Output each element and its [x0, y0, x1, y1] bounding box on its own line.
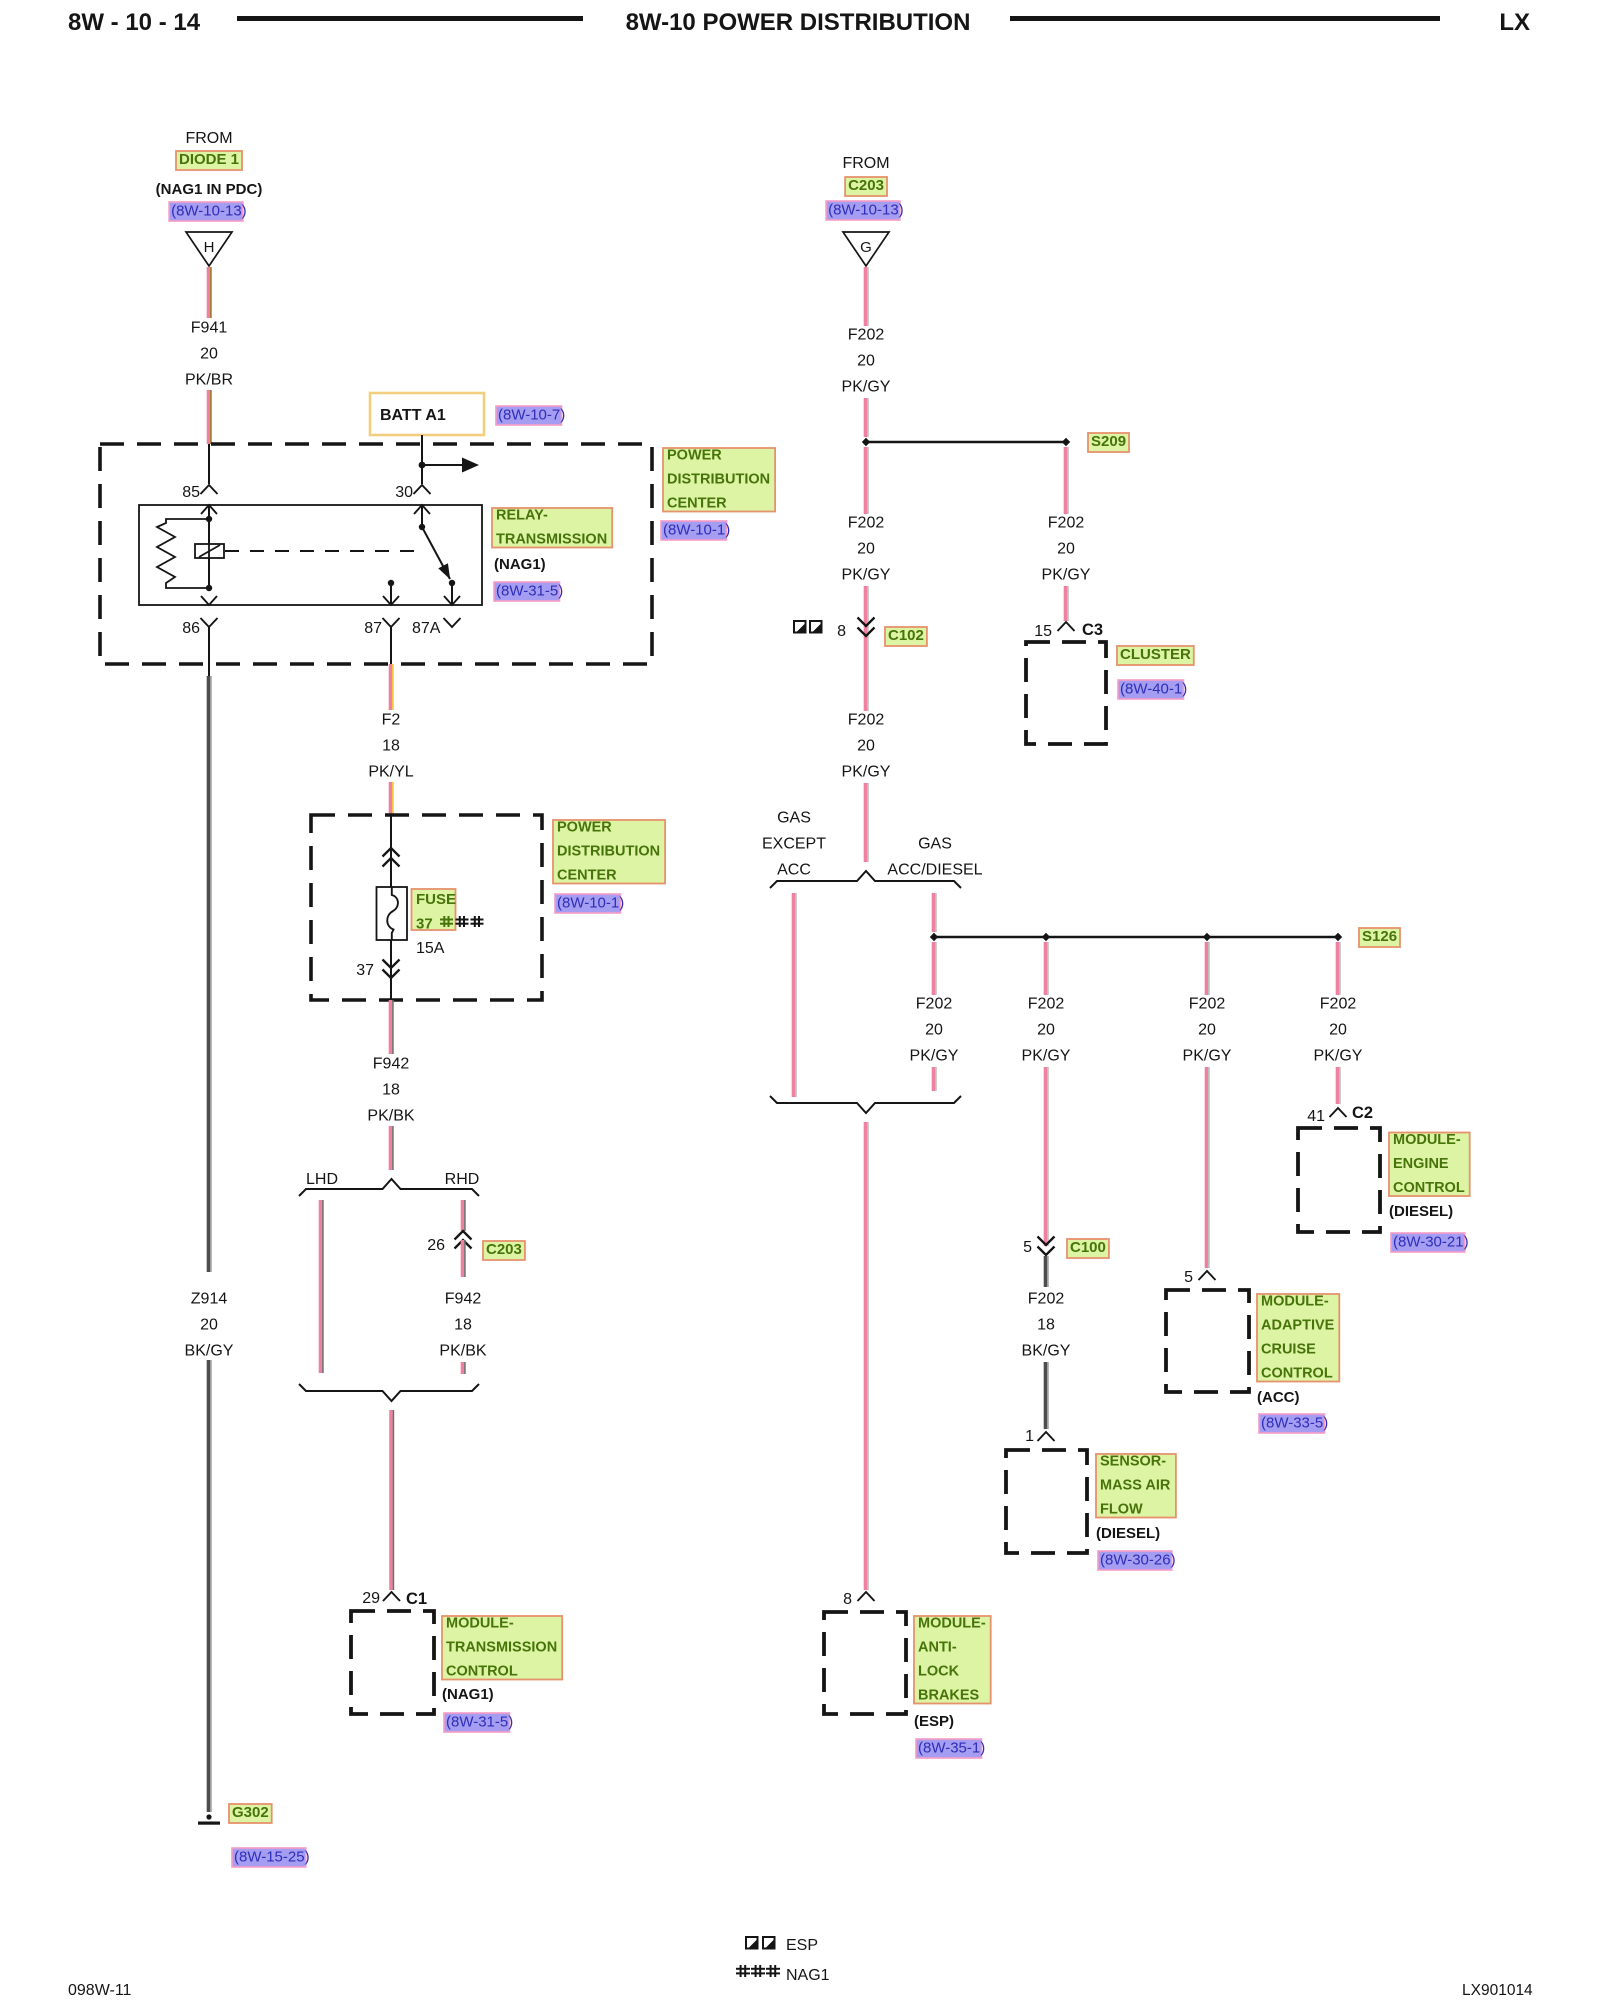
- svg-text:F942: F942: [445, 1291, 482, 1308]
- svg-text:RHD: RHD: [445, 1171, 480, 1188]
- svg-text:F941: F941: [191, 320, 228, 337]
- svg-text:EXCEPT: EXCEPT: [762, 836, 826, 853]
- svg-text:15A: 15A: [416, 940, 445, 957]
- svg-text:FROM: FROM: [842, 155, 889, 172]
- svg-text:LOCK: LOCK: [918, 1664, 960, 1680]
- svg-text:29: 29: [362, 1590, 380, 1607]
- svg-text:37: 37: [416, 916, 433, 933]
- svg-text:GAS: GAS: [918, 836, 952, 853]
- svg-text:8W-10 POWER DISTRIBUTION: 8W-10 POWER DISTRIBUTION: [626, 9, 971, 36]
- svg-text:ENGINE: ENGINE: [1393, 1156, 1449, 1172]
- svg-text:20: 20: [925, 1022, 943, 1039]
- svg-text:PK/BK: PK/BK: [439, 1343, 486, 1360]
- svg-text:NAG1: NAG1: [786, 1967, 830, 1984]
- svg-text:8: 8: [837, 623, 846, 640]
- svg-text:8W - 10 - 14: 8W - 10 - 14: [68, 9, 201, 36]
- svg-text:BATT A1: BATT A1: [380, 407, 446, 424]
- svg-text:S209: S209: [1091, 433, 1126, 450]
- svg-text:(8W-35-1): (8W-35-1): [918, 1740, 985, 1757]
- svg-text:85: 85: [182, 484, 200, 501]
- svg-text:PK/GY: PK/GY: [1022, 1048, 1071, 1065]
- svg-text:(8W-31-5): (8W-31-5): [496, 583, 563, 600]
- svg-text:F202: F202: [848, 327, 885, 344]
- svg-text:F942: F942: [373, 1056, 410, 1073]
- svg-text:(8W-10-13): (8W-10-13): [828, 202, 904, 219]
- svg-text:F202: F202: [848, 712, 885, 729]
- svg-text:CONTROL: CONTROL: [1393, 1180, 1465, 1196]
- svg-text:MODULE-: MODULE-: [446, 1616, 514, 1632]
- svg-text:MODULE-: MODULE-: [1261, 1294, 1329, 1310]
- svg-text:POWER: POWER: [557, 820, 612, 836]
- svg-text:C100: C100: [1070, 1239, 1106, 1256]
- svg-text:SENSOR-: SENSOR-: [1100, 1454, 1166, 1470]
- svg-text:86: 86: [182, 620, 200, 637]
- svg-text:(NAG1): (NAG1): [442, 1686, 494, 1703]
- svg-text:41: 41: [1307, 1108, 1325, 1125]
- svg-text:(8W-33-5): (8W-33-5): [1261, 1415, 1328, 1432]
- svg-text:C2: C2: [1352, 1104, 1373, 1122]
- svg-text:LHD: LHD: [306, 1171, 338, 1188]
- svg-text:18: 18: [1037, 1317, 1055, 1334]
- svg-text:20: 20: [1037, 1022, 1055, 1039]
- svg-text:S126: S126: [1362, 928, 1397, 945]
- svg-text:F202: F202: [1189, 996, 1226, 1013]
- svg-text:37: 37: [356, 962, 374, 979]
- svg-text:TRANSMISSION: TRANSMISSION: [496, 532, 607, 548]
- svg-text:(DIESEL): (DIESEL): [1389, 1203, 1453, 1220]
- svg-text:8: 8: [843, 1591, 852, 1608]
- svg-text:POWER: POWER: [667, 448, 722, 464]
- svg-text:ANTI-: ANTI-: [918, 1640, 957, 1656]
- svg-text:(8W-30-26): (8W-30-26): [1100, 1552, 1176, 1569]
- svg-text:MASS AIR: MASS AIR: [1100, 1478, 1171, 1494]
- svg-text:FROM: FROM: [185, 130, 232, 147]
- svg-text:CENTER: CENTER: [557, 868, 617, 884]
- svg-text:30: 30: [395, 484, 413, 501]
- svg-text:GAS: GAS: [777, 810, 811, 827]
- svg-text:(8W-10-1): (8W-10-1): [557, 895, 624, 912]
- svg-text:DISTRIBUTION: DISTRIBUTION: [557, 844, 660, 860]
- svg-text:PK/GY: PK/GY: [842, 379, 891, 396]
- svg-text:PK/GY: PK/GY: [842, 567, 891, 584]
- svg-text:DISTRIBUTION: DISTRIBUTION: [667, 472, 770, 488]
- svg-text:C1: C1: [406, 1590, 427, 1608]
- svg-text:F202: F202: [1048, 515, 1085, 532]
- svg-text:RELAY-: RELAY-: [496, 508, 548, 524]
- svg-text:C3: C3: [1082, 621, 1103, 639]
- svg-text:(8W-31-5): (8W-31-5): [446, 1714, 513, 1731]
- svg-text:(8W-30-21): (8W-30-21): [1393, 1234, 1469, 1251]
- svg-text:(8W-10-13): (8W-10-13): [171, 203, 247, 220]
- svg-text:(8W-15-25): (8W-15-25): [234, 1849, 310, 1866]
- svg-text:C102: C102: [888, 627, 924, 644]
- svg-text:20: 20: [1329, 1022, 1347, 1039]
- svg-text:(8W-10-7): (8W-10-7): [498, 407, 565, 424]
- svg-text:20: 20: [200, 1317, 218, 1334]
- svg-text:CONTROL: CONTROL: [446, 1664, 518, 1680]
- svg-text:20: 20: [857, 738, 875, 755]
- svg-text:PK/GY: PK/GY: [1314, 1048, 1363, 1065]
- svg-text:18: 18: [382, 1082, 400, 1099]
- svg-text:LX901014: LX901014: [1462, 1982, 1533, 1999]
- svg-text:87: 87: [364, 620, 382, 637]
- svg-text:ACC: ACC: [777, 862, 811, 879]
- svg-text:20: 20: [1057, 541, 1075, 558]
- svg-text:DIODE 1: DIODE 1: [179, 151, 239, 168]
- svg-text:20: 20: [200, 346, 218, 363]
- svg-text:BRAKES: BRAKES: [918, 1688, 980, 1704]
- svg-text:CENTER: CENTER: [667, 496, 727, 512]
- svg-text:BK/GY: BK/GY: [1022, 1343, 1071, 1360]
- svg-text:CLUSTER: CLUSTER: [1120, 646, 1191, 663]
- svg-text:(8W-10-1): (8W-10-1): [663, 522, 730, 539]
- svg-text:PK/GY: PK/GY: [842, 764, 891, 781]
- svg-text:LX: LX: [1499, 9, 1530, 36]
- svg-text:F2: F2: [382, 712, 401, 729]
- svg-text:87A: 87A: [412, 620, 441, 637]
- svg-text:F202: F202: [1028, 996, 1065, 1013]
- svg-text:BK/GY: BK/GY: [185, 1343, 234, 1360]
- svg-text:PK/BR: PK/BR: [185, 372, 233, 389]
- svg-text:C203: C203: [848, 177, 884, 194]
- svg-text:G302: G302: [232, 1804, 269, 1821]
- svg-text:5: 5: [1184, 1269, 1193, 1286]
- svg-text:PK/GY: PK/GY: [1042, 567, 1091, 584]
- svg-text:(ESP): (ESP): [914, 1713, 954, 1730]
- svg-text:(DIESEL): (DIESEL): [1096, 1525, 1160, 1542]
- svg-text:PK/GY: PK/GY: [910, 1048, 959, 1065]
- svg-text:(ACC): (ACC): [1257, 1389, 1300, 1406]
- svg-text:G: G: [860, 239, 872, 256]
- svg-text:(NAG1 IN PDC): (NAG1 IN PDC): [156, 181, 263, 198]
- svg-text:098W-11: 098W-11: [68, 1982, 132, 1999]
- svg-text:MODULE-: MODULE-: [918, 1616, 986, 1632]
- svg-text:20: 20: [857, 353, 875, 370]
- svg-text:ACC/DIESEL: ACC/DIESEL: [887, 862, 982, 879]
- svg-text:(NAG1): (NAG1): [494, 556, 546, 573]
- svg-text:1: 1: [1025, 1428, 1034, 1445]
- svg-text:FUSE: FUSE: [416, 891, 456, 908]
- svg-text:TRANSMISSION: TRANSMISSION: [446, 1640, 557, 1656]
- svg-text:C203: C203: [486, 1241, 522, 1258]
- svg-text:F202: F202: [916, 996, 953, 1013]
- svg-text:MODULE-: MODULE-: [1393, 1132, 1461, 1148]
- svg-text:H: H: [204, 239, 215, 256]
- svg-text:15: 15: [1034, 623, 1052, 640]
- svg-text:F202: F202: [1320, 996, 1357, 1013]
- svg-text:PK/BK: PK/BK: [367, 1108, 414, 1125]
- svg-text:PK/YL: PK/YL: [368, 764, 413, 781]
- svg-text:ESP: ESP: [786, 1937, 818, 1954]
- svg-text:26: 26: [427, 1237, 445, 1254]
- svg-text:F202: F202: [1028, 1291, 1065, 1308]
- svg-text:ADAPTIVE: ADAPTIVE: [1261, 1318, 1335, 1334]
- svg-text:18: 18: [454, 1317, 472, 1334]
- svg-text:CONTROL: CONTROL: [1261, 1366, 1333, 1382]
- svg-text:(8W-40-1): (8W-40-1): [1120, 681, 1187, 698]
- svg-text:FLOW: FLOW: [1100, 1502, 1143, 1518]
- svg-text:20: 20: [1198, 1022, 1216, 1039]
- svg-text:20: 20: [857, 541, 875, 558]
- svg-text:Z914: Z914: [191, 1291, 228, 1308]
- svg-text:CRUISE: CRUISE: [1261, 1342, 1316, 1358]
- svg-text:18: 18: [382, 738, 400, 755]
- svg-text:PK/GY: PK/GY: [1183, 1048, 1232, 1065]
- svg-text:F202: F202: [848, 515, 885, 532]
- svg-text:5: 5: [1023, 1239, 1032, 1256]
